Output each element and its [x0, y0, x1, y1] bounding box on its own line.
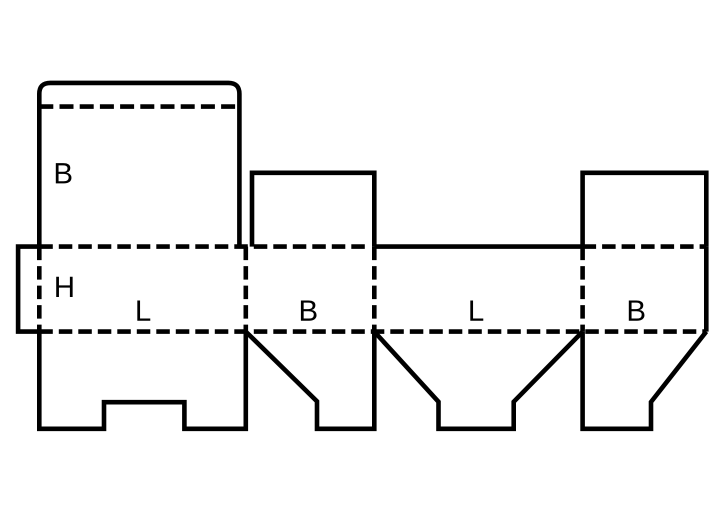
- label B (first breadth panel): [301, 300, 317, 320]
- label L (second length panel): [470, 300, 483, 320]
- bottom flap under right B panel: [583, 332, 707, 429]
- bottom tapered flap under second L panel: [374, 332, 582, 429]
- bottom body fold line (dashed): [39, 329, 706, 334]
- fold line L|B (dashed vertical): [244, 247, 249, 332]
- label H (dust flap): [56, 277, 72, 297]
- top body fold line left section (dashed): [39, 244, 370, 249]
- dust flap H fold line (dashed vertical): [37, 247, 42, 332]
- right outer cut edge: [704, 247, 709, 332]
- label B (second breadth panel): [629, 300, 645, 320]
- top body fold line right section (dashed): [583, 244, 707, 249]
- fold line L|B right (dashed vertical): [580, 247, 585, 332]
- label B (lid panel): [56, 163, 72, 183]
- top tab over right B panel cut outline: [583, 173, 707, 247]
- label L (first length panel): [137, 300, 150, 320]
- top tab over B panel cut outline: [252, 173, 374, 247]
- bottom flap under L panel with lock notch: [39, 332, 246, 429]
- fold line B|L (dashed vertical): [372, 247, 377, 332]
- top cut edge of second L panel (solid): [374, 244, 582, 249]
- lid fold line (dashed): [39, 104, 239, 109]
- bottom glue flap under B panel: [246, 332, 374, 429]
- lid panel cut outline (rounded top corners): [39, 83, 239, 247]
- dust flap H cut outline: [18, 247, 39, 332]
